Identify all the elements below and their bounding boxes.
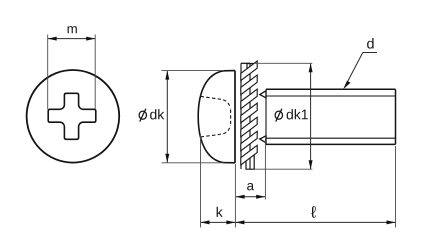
hidden phillips recess (dashed) [201,96,231,137]
l dimension line [236,221,396,223]
k extension line [200,134,202,228]
front view: head outline circle [27,70,120,163]
m dimension line with arrows [48,38,95,40]
spring washer (section) [241,63,255,169]
l (script ell) label [311,206,316,218]
phi dk dimension line [166,71,168,163]
phi dk1 extension lines [255,62,312,64]
thread run-out wedges [260,91,266,98]
m label [68,26,77,33]
d leader line [363,52,377,54]
a dimension line [236,196,265,198]
phillips recess cross (front view) [48,93,96,139]
threaded shank [266,89,396,144]
d label [367,38,374,49]
m dimension extension lines [47,35,49,110]
side view: pan head dome [198,71,235,163]
k dimension line [201,221,235,223]
a label [247,183,254,190]
phi dk label: dk text [150,109,164,119]
phi dk label: phi symbol [139,111,146,119]
phi dk dimension extension lines [162,70,225,72]
phi dk1 label: phi symbol [275,111,282,119]
washer coil stripes [241,61,257,165]
bottom coil end [246,155,254,169]
head bearing face [234,71,236,163]
a dimension extension line [264,139,266,200]
k label [217,207,223,217]
phi dk1 label: dk1 text [287,109,308,119]
top coil end [247,64,255,73]
phi dk1 dimension line [310,64,312,169]
l / k extension lines [234,164,236,228]
